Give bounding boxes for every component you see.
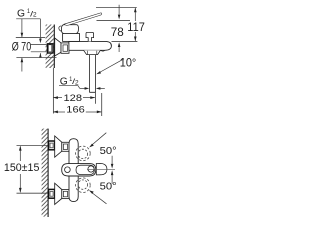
dim 78 lower pointer [118, 47, 120, 52]
wall face line (front view) [47, 129, 49, 217]
lever back curl [59, 26, 61, 31]
extension line bottom union center [17, 192, 49, 194]
dim 150+-15 upper [19, 146, 21, 161]
lever hub (side view) [61, 25, 78, 34]
svg-text:128: 128 [64, 93, 83, 104]
s-union nut (side view) [61, 43, 69, 53]
lever screw hole [65, 167, 71, 173]
50deg bottom leader [92, 193, 107, 204]
dim 78 upper pointer [118, 5, 120, 15]
supply pipe behind wall [31, 45, 47, 52]
extension line body top (y41.5) [112, 40, 138, 42]
lever blade (side view) [64, 13, 102, 26]
lever dome circle [88, 166, 94, 172]
extension line bottom of escutcheon [16, 57, 56, 59]
extension line lever top (y7) [96, 7, 137, 9]
cartridge housing (side view) [63, 34, 80, 42]
extension line top union center [17, 145, 49, 147]
diverter knob (side view) [86, 32, 94, 41]
dashed inner circle top [78, 149, 87, 158]
G 1/2 underline [16, 18, 40, 20]
dim 150+-15 lower [19, 174, 21, 192]
in-wall fitting square (side view) [47, 44, 53, 53]
svg-text:166: 166 [66, 104, 85, 115]
top union: in-wall square [49, 141, 55, 150]
svg-text:117: 117 [127, 20, 145, 34]
lever capsule (front view) [62, 164, 96, 176]
dashed circle lever rotated up [76, 146, 91, 161]
extension line spout tip [101, 93, 103, 116]
lever centerline [87, 168, 115, 170]
extension line hose tube right [95, 93, 97, 104]
G 1/2 arrows at hose thread [80, 88, 85, 90]
top union: escutcheon cone [55, 136, 62, 157]
label G 1/2 (second) [60, 76, 79, 87]
G 1/2 second underline leader [59, 86, 80, 89]
extension line lever tip bottom (y20) [97, 19, 131, 21]
faucet body (side view) [69, 41, 112, 50]
svg-text:Ø 70: Ø 70 [12, 39, 32, 53]
dashed circle lever rotated down [76, 178, 91, 193]
G 1/2 leader arrow down to wall fitting [39, 19, 41, 39]
svg-text:G: G [17, 9, 25, 20]
svg-text:2: 2 [33, 12, 37, 19]
dim line O70 upper arrow [21, 19, 23, 37]
svg-text:150±15: 150±15 [4, 162, 40, 174]
wall hatching (front view) [42, 129, 48, 217]
lever knob cap (front view) [96, 163, 107, 175]
50deg top arc arrow at centerline [111, 156, 113, 164]
svg-text:50°: 50° [100, 146, 117, 157]
top union: nut [62, 142, 69, 151]
dashed inner circle bottom [78, 180, 87, 189]
50deg bottom arc arrow at centerline [111, 175, 113, 184]
spout aerator (side view) [84, 50, 101, 54]
extension line top of escutcheon [16, 37, 45, 39]
escutcheon cone (side view) [55, 38, 61, 56]
dim 128 [53, 97, 62, 99]
50deg top leader [92, 133, 106, 145]
faucet body capsule (front view) [69, 139, 78, 202]
10deg leader with arrow [98, 59, 124, 74]
dim 117 line with arrows [134, 8, 136, 21]
bottom union: in-wall square [49, 189, 55, 198]
shower hose connector tube (side view) [89, 55, 95, 93]
wall hatching (side view) [46, 25, 54, 69]
dim line O70 lower arrow [21, 58, 23, 72]
svg-text:78: 78 [111, 25, 124, 39]
lever inner oval [76, 165, 94, 174]
bottom union: escutcheon cone [55, 183, 62, 204]
svg-text:50°: 50° [100, 182, 117, 193]
G 1/2 pipe lower arrow [39, 53, 42, 58]
dim 166 [53, 111, 65, 113]
label G 1/2 (top left) [17, 8, 37, 19]
bottom union: nut [62, 190, 69, 199]
spout lip [100, 49, 104, 52]
wall face line (side view) [53, 25, 55, 69]
wall face extension line down to width dims [52, 68, 54, 114]
